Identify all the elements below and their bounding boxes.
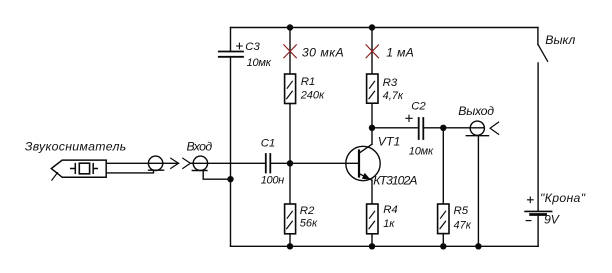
resistor R5 47к [438, 204, 472, 234]
connector plug circle (cable end) [148, 156, 178, 170]
wire R1 top lead [289, 28, 291, 75]
resistor R3 4,7к [367, 74, 404, 103]
capacitor C2 10мк [406, 101, 434, 158]
wire right rail lower (battery to bottom bus) [537, 216, 539, 246]
connector XS1 Вход [183, 140, 213, 171]
wire top supply bus [231, 27, 538, 29]
node top R1 [287, 24, 293, 30]
svg-text:1к: 1к [383, 218, 395, 230]
wire collector node to C2 [372, 127, 418, 129]
connector XS2 Выход [458, 104, 498, 136]
wire R2 top lead [289, 163, 291, 204]
svg-text:1 мА: 1 мА [386, 46, 414, 60]
wire C2 to output node [424, 127, 443, 129]
wire right rail middle (switch to battery) [537, 63, 539, 211]
wire left rail lower (C3 to bottom bus) [230, 58, 232, 247]
svg-text:C2: C2 [411, 101, 426, 113]
svg-text:47к: 47к [454, 220, 472, 232]
svg-text:9V: 9V [544, 213, 561, 227]
wire R4 bottom lead [371, 234, 373, 247]
svg-text:Выход: Выход [458, 104, 494, 118]
wire R5 top lead [442, 128, 444, 204]
node C2/R5/output [440, 125, 446, 131]
svg-text:30 мкА: 30 мкА [302, 45, 344, 59]
node bottom R5 [440, 243, 446, 249]
wire input shield to left rail [203, 171, 230, 180]
capacitor C1 100н [261, 138, 284, 187]
svg-text:C3: C3 [245, 41, 260, 53]
svg-text:R5: R5 [454, 205, 469, 217]
resistor R1 240к [285, 74, 325, 104]
svg-text:Вход: Вход [187, 140, 213, 154]
node bottom R4 [369, 243, 375, 249]
node bottom output shield [475, 243, 481, 249]
transistor VT1 КТ3102А [346, 128, 418, 188]
svg-text:R4: R4 [383, 204, 398, 216]
battery GB1 Крона 9V [525, 191, 586, 227]
wire output jack shield to ground bus [477, 136, 479, 247]
node bottom R2 [287, 243, 293, 249]
svg-text:КТ3102А: КТ3102А [373, 174, 417, 188]
wire pickup signal to plug (through circle) [106, 162, 178, 164]
svg-text:56к: 56к [300, 218, 318, 230]
node collector/R3/C2 [369, 125, 375, 131]
svg-text:VT1: VT1 [378, 135, 401, 149]
resistor R4 1к [367, 204, 398, 234]
svg-text:240к: 240к [300, 90, 325, 102]
wire left rail upper (to C3) [230, 28, 232, 52]
svg-text:Звукосниматель: Звукосниматель [25, 139, 127, 153]
wire R2 bottom lead [289, 234, 291, 247]
svg-text:100н: 100н [261, 175, 284, 187]
wire pickup shield line [106, 170, 153, 173]
wire C1 to base node [271, 162, 290, 164]
wire R3 top lead [371, 28, 373, 75]
wire emitter lead to R4 [371, 180, 373, 204]
pickup BF1 Звукосниматель [25, 139, 127, 180]
wire right rail upper (to switch) [537, 28, 539, 45]
svg-text:4,7к: 4,7к [383, 90, 404, 102]
wire output node to jack (through circle) [443, 127, 484, 129]
svg-text:R1: R1 [301, 76, 316, 88]
break mark X 30 мкА [284, 45, 344, 60]
wire bottom ground bus [231, 245, 539, 247]
wire R5 bottom lead [442, 234, 444, 247]
node top R3 [369, 24, 375, 30]
svg-text:R2: R2 [300, 205, 315, 217]
svg-text:C1: C1 [261, 138, 276, 150]
svg-text:10мк: 10мк [409, 146, 434, 158]
capacitor C3 [219, 41, 272, 69]
switch SA1 Выкл [538, 33, 575, 61]
resistor R2 56к [285, 204, 318, 234]
node input shield on left rail [227, 176, 233, 182]
wire base node to transistor [290, 162, 359, 164]
wire R3 bottom lead to collector node [371, 103, 373, 128]
wire input signal to C1 (through circle, crosses left rail) [190, 162, 265, 164]
svg-text:10мк: 10мк [247, 57, 272, 69]
svg-text:"Крона": "Крона" [540, 191, 586, 205]
svg-text:R3: R3 [383, 77, 398, 89]
wire R1 bottom lead to base node [289, 104, 291, 164]
svg-text:Выкл: Выкл [545, 33, 575, 47]
break mark X 1 мА [366, 45, 414, 60]
node base/C1/R1/R2 [287, 160, 293, 166]
